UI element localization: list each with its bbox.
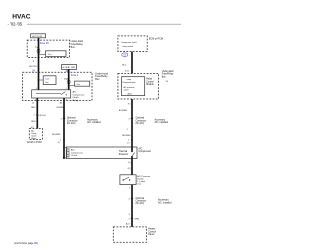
svg-text:2: 2: [66, 88, 67, 90]
svg-text:comp: comp: [127, 79, 132, 81]
svg-text:A/C: A/C: [73, 91, 77, 94]
connector box (relay coil): [43, 76, 56, 85]
svg-text:BLU/RED: BLU/RED: [52, 134, 61, 136]
label optional connector: [67, 117, 78, 125]
relay bottom pins wires: [36, 98, 38, 101]
svg-text:BLU: BLU: [122, 64, 126, 66]
svg-text:2: 2: [129, 118, 131, 120]
svg-text:BLU/RED: BLU/RED: [119, 110, 128, 112]
wire from HOT IN ON into fuse box: [38, 38, 40, 50]
junction: [68, 85, 70, 87]
title rule: [27, 23, 181, 25]
svg-text:Relay: Relay: [146, 79, 153, 81]
svg-text:Com: Com: [45, 78, 50, 80]
svg-text:3: 3: [66, 99, 67, 101]
stub to coil connector box: [39, 79, 44, 81]
junction: [38, 79, 40, 81]
wire under-dash to under-hood: [38, 58, 40, 73]
label Under-dash Fuse/Relay Box: [162, 70, 175, 79]
svg-text:Accessory: Accessory: [155, 118, 166, 121]
svg-text:Connector: Connector: [136, 119, 147, 122]
svg-text:Fuse/Relay: Fuse/Relay: [162, 74, 174, 76]
svg-text:Protector: Protector: [119, 153, 129, 156]
label optional connector: [136, 117, 147, 125]
clutch coil: [67, 149, 69, 157]
svg-text:Box: Box: [71, 46, 76, 49]
svg-text:Box: Box: [162, 76, 167, 78]
svg-text:Relay: Relay: [73, 100, 79, 102]
svg-text:HVAC: HVAC: [12, 13, 30, 20]
label Relay Control Module: [146, 79, 154, 87]
svg-text:relay control: relay control: [123, 45, 134, 48]
stub to connector box: [39, 53, 46, 55]
node HOT IN ON box: [31, 34, 46, 38]
svg-text:- '02-'05: - '02-'05: [8, 22, 23, 27]
label optional connector: [136, 197, 147, 205]
svg-text:Connector: Connector: [136, 200, 147, 203]
A/C pressure switch box: [120, 175, 136, 185]
fuse F1 symbol: [68, 80, 70, 90]
svg-text:(E-D4): (E-D4): [40, 115, 46, 117]
svg-text:Panel: Panel: [148, 233, 155, 236]
svg-text:RED: RED: [31, 121, 36, 123]
svg-text:Grn: Grn: [45, 81, 49, 84]
svg-text:F2: F2: [128, 103, 131, 105]
svg-text:Control: Control: [146, 80, 154, 83]
svg-text:Relay: Relay: [31, 138, 36, 140]
svg-text:Clutch: Clutch: [71, 154, 78, 157]
inline connector 7: [36, 114, 38, 116]
svg-text:(for A/C): (for A/C): [136, 202, 145, 205]
svg-text:A/C, installed: A/C, installed: [87, 121, 101, 124]
svg-text:A/C, installed: A/C, installed: [155, 121, 169, 124]
svg-text:(for A/C): (for A/C): [67, 122, 76, 125]
svg-text:Accessory: Accessory: [158, 199, 169, 202]
svg-text:GRN: GRN: [134, 218, 139, 220]
svg-text:(cont'd from page 96): (cont'd from page 96): [14, 242, 38, 245]
heater control panel (dashed): [113, 227, 146, 242]
svg-text:(A/C): (A/C): [128, 93, 133, 96]
note accessory A/C: [87, 118, 101, 124]
svg-text:A22: A22: [126, 223, 131, 226]
svg-text:4: 4: [129, 214, 131, 216]
svg-text:Module: Module: [146, 84, 154, 86]
thermal protector label: [119, 150, 129, 156]
thermal protector switch: [131, 151, 134, 157]
connector box (under-dash): [46, 51, 67, 57]
svg-text:Optional: Optional: [67, 117, 76, 120]
svg-text:Accessory: Accessory: [87, 118, 98, 121]
svg-text:16: 16: [32, 103, 35, 105]
right output wire to compressor clutch: [63, 101, 65, 158]
inner unit box: [122, 77, 145, 96]
svg-text:ECM or PCM: ECM or PCM: [27, 141, 41, 144]
svg-text:4: 4: [35, 99, 36, 101]
svg-text:A/C: A/C: [139, 147, 143, 150]
svg-text:Optional: Optional: [136, 197, 145, 200]
svg-text:4 ( ): 4 ( ): [128, 168, 132, 170]
label A/C pressure switch: [137, 175, 151, 186]
wire pressure switch to heater panel: [131, 185, 133, 227]
ECM/PCM box (dashed): [29, 129, 42, 140]
connector box (fuse 1): [75, 81, 90, 86]
svg-text:HOT IN ON: HOT IN ON: [32, 36, 42, 38]
svg-text:Fuse 18: Fuse 18: [40, 42, 49, 45]
svg-text:(for A/C): (for A/C): [136, 122, 145, 125]
svg-text:Clutch: Clutch: [73, 96, 80, 99]
svg-text:Compressor: Compressor: [71, 151, 83, 154]
svg-text:Grn: Grn: [77, 83, 81, 86]
note accessory A/C: [155, 118, 169, 124]
svg-text:E15: E15: [125, 71, 130, 73]
svg-text:2: 2: [129, 198, 131, 200]
label A/C Compressor: [139, 147, 152, 153]
svg-text:1: 1: [60, 139, 62, 141]
svg-text:1: 1: [128, 139, 130, 141]
ECM/PCM top right (dashed): [118, 36, 147, 52]
relay A/C compressor clutch relay: [32, 90, 71, 98]
wire fuse1 feed: [68, 69, 70, 80]
inline connector with GRN: [131, 217, 133, 219]
svg-text:Under-dash: Under-dash: [162, 70, 175, 73]
wire compressor to pressure switch: [131, 156, 133, 174]
under-dash fuse/relay box (dashed): [27, 40, 69, 57]
junction dots at clutch coil: [63, 147, 65, 149]
optional connector (left): [63, 117, 65, 119]
under-hood fuse/relay box (dashed): [23, 72, 93, 100]
svg-text:Box: Box: [95, 78, 100, 81]
svg-text:4 (: 4 (: [127, 143, 130, 145]
node HOT AT ALL TIMES box: [62, 65, 77, 70]
wire left inside under-hood box: [38, 72, 40, 90]
svg-text:7: 7: [33, 115, 35, 117]
note accessory A/C: [158, 199, 172, 205]
pin label C6: [122, 53, 128, 57]
svg-text:Optional: Optional: [136, 117, 145, 120]
svg-text:Fuse 1: Fuse 1: [71, 74, 79, 77]
svg-text:A/C, installed: A/C, installed: [158, 201, 172, 204]
stub to connector box: [69, 85, 75, 87]
svg-text:A/C: A/C: [71, 149, 75, 152]
svg-text:Thermal: Thermal: [119, 150, 128, 153]
svg-text:Compressor: Compressor: [73, 93, 85, 96]
svg-text:36: 36: [166, 81, 169, 83]
left output wire to ECM: [36, 101, 38, 129]
svg-text:1: 1: [36, 88, 37, 90]
svg-text:Connector: Connector: [67, 119, 78, 122]
optional connector (right lower): [131, 197, 133, 199]
svg-text:BLU/RED: BLU/RED: [57, 107, 66, 109]
fuse F18 symbol: [38, 49, 40, 58]
svg-text:Compressor clutch: Compressor clutch: [121, 41, 137, 44]
svg-text:Compressor: Compressor: [139, 150, 152, 153]
svg-text:ECM or PCM: ECM or PCM: [149, 38, 163, 41]
relay label: [73, 91, 85, 102]
svg-text:2: 2: [61, 118, 63, 120]
label Heater Control Panel: [148, 228, 156, 237]
relay control module (dashed): [118, 74, 159, 100]
label A/C Compressor Clutch: [71, 149, 83, 157]
svg-text:1: 1: [129, 187, 131, 189]
label Under-dash Fuse/Relay Box: [71, 40, 84, 49]
svg-text:A4: A4: [60, 102, 63, 105]
svg-text:HOT AT ALL TIMES: HOT AT ALL TIMES: [63, 66, 76, 69]
optional connector (right upper): [131, 117, 133, 119]
svg-text:1: 1: [127, 129, 128, 131]
svg-text:Grn: Grn: [48, 53, 52, 56]
wire module to compressor: [131, 99, 133, 152]
svg-text:4 ( ): 4 ( ): [137, 183, 141, 185]
svg-text:BLU/RED: BLU/RED: [122, 135, 131, 137]
label Under-hood Fuse/Relay Box: [95, 72, 108, 81]
svg-text:4 (: 4 (: [58, 142, 61, 144]
svg-text:switch: switch: [124, 88, 129, 91]
wire ECM to module: [131, 52, 133, 74]
compressor assembly box: [66, 147, 137, 159]
svg-text:2: 2: [33, 61, 35, 63]
svg-text:RED: RED: [31, 107, 36, 109]
svg-text:1 ( ): 1 ( ): [128, 162, 132, 164]
svg-text:2: 2: [129, 218, 131, 220]
svg-text:Communication: Communication: [122, 81, 135, 84]
svg-text:BLK/YEL: BLK/YEL: [29, 66, 36, 68]
